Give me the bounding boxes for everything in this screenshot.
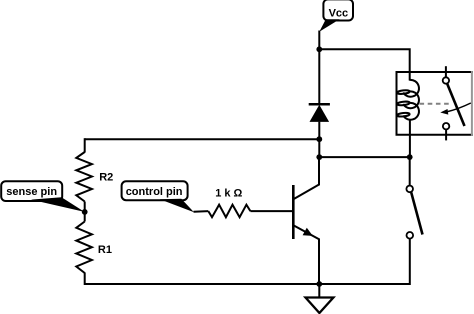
node ground junction [316, 281, 322, 287]
wire left rail top [84, 138, 86, 152]
label Vcc [319, 0, 353, 32]
relay coil L1 [397, 80, 419, 120]
wire top rail to relay [319, 49, 409, 80]
svg-text:1 k Ω: 1 k Ω [215, 188, 242, 200]
wire left horizontal to divider [85, 138, 320, 140]
wire Vcc node to diode [318, 49, 320, 104]
svg-text:control pin: control pin [126, 186, 183, 198]
wire ground stub [318, 284, 320, 298]
relay contact bottom stub [445, 130, 447, 141]
relay K1 box [397, 72, 474, 135]
wire diode anode down to collector node [318, 122, 320, 157]
relay contact top terminal [443, 77, 449, 83]
relay switch blade [447, 84, 464, 126]
wire coil bottom to junction [409, 120, 411, 158]
wire base [250, 210, 292, 212]
switch S1 top terminal [406, 186, 413, 193]
diode D1 [309, 104, 330, 122]
wire collector up [318, 157, 320, 185]
relay contact top stub [445, 66, 447, 77]
wire R2 to R1 [84, 202, 86, 222]
wire bottom rail right [319, 283, 409, 285]
node sense junction [82, 209, 88, 215]
switch S1 bottom terminal [407, 232, 414, 239]
relay actuate arrow [448, 103, 471, 112]
node collector junction [316, 154, 322, 160]
switch S1 wire bottom [408, 239, 411, 284]
wire Vcc stub [318, 31, 320, 50]
svg-text:sense pin: sense pin [6, 186, 57, 198]
node relay-switch junction [407, 154, 413, 160]
node top junction [316, 46, 322, 52]
transistor Q1 [293, 184, 319, 239]
resistor 1 k ohm [208, 205, 250, 218]
switch S1 wire top [409, 157, 411, 185]
wire control pin to resistor [194, 210, 209, 213]
svg-text:Vcc: Vcc [329, 8, 349, 20]
svg-text:R1: R1 [98, 244, 112, 256]
wire R1 to bottom rail [85, 273, 320, 285]
resistor R1 [76, 222, 92, 274]
switch S1 blade [411, 192, 422, 234]
node diode-anode junction [316, 136, 322, 142]
relay contact bottom terminal [443, 123, 449, 129]
label sense pin [1, 181, 84, 212]
wire collector row [319, 156, 409, 158]
ground [306, 298, 334, 314]
label control pin [122, 181, 194, 212]
resistor R2 [76, 152, 92, 202]
svg-text:R2: R2 [99, 172, 113, 184]
wire emitter down [318, 239, 320, 285]
relay dashed link [420, 103, 450, 105]
